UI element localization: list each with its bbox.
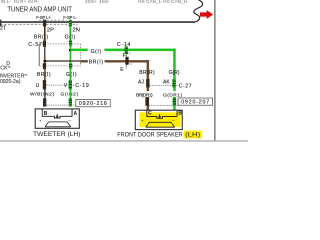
svg-text:0920-216: 0920-216: [79, 101, 107, 107]
speaker symbol bracket: [147, 117, 177, 119]
tweeter connector dotted line: [47, 104, 76, 106]
tweeter cone: [45, 122, 71, 127]
connector C-14 line: [125, 45, 127, 69]
bottom separator gray line: [0, 140, 248, 141]
wire green vertical from 2N to C-57: [69, 23, 71, 41]
junction dot brown: [44, 60, 47, 63]
wire brown vertical from 2P to C-57: [44, 23, 46, 41]
speaker symbol center arrow: [158, 114, 161, 119]
svg-text:BR(I): BR(I): [89, 60, 104, 66]
svg-text:2N: 2N: [73, 27, 80, 33]
connector C-19 dotted line: [46, 84, 74, 86]
callout box 0920-216: [76, 100, 110, 108]
unit connector dashed strip: [39, 19, 67, 21]
pin 2T (cut at left edge): [0, 20, 1, 27]
tweeter symbol center arrow: [56, 114, 59, 119]
svg-text:–: –: [172, 118, 175, 123]
svg-text:+: +: [39, 118, 42, 123]
C-57 top pin green: [69, 40, 72, 46]
svg-text:C-19: C-19: [75, 83, 89, 89]
C-57 top pin brown: [43, 41, 46, 47]
svg-text:B: B: [178, 110, 182, 116]
svg-text:G(R): G(R): [169, 70, 180, 76]
svg-text:*4: *4: [128, 52, 131, 56]
C-19 pin green: [69, 80, 72, 90]
pin 2P: [43, 20, 54, 34]
speaker connector pin brown: [145, 97, 148, 106]
unit box continuation squiggle: [194, 0, 203, 22]
wire brown vertical C-57 to C-19: [44, 69, 45, 80]
svg-text:G(DR1): G(DR1): [163, 92, 182, 98]
svg-text:C-27: C-27: [179, 83, 192, 89]
wire green vertical inside C-57: [70, 46, 72, 63]
C-27 pin brown: [146, 79, 149, 88]
svg-text:G(I): G(I): [65, 35, 76, 41]
connector C-57 dashed box: [39, 44, 80, 66]
svg-text:A: A: [74, 111, 78, 117]
svg-text:–: –: [69, 118, 72, 123]
red continuation arrow: [200, 10, 213, 19]
svg-text:C: C: [148, 110, 152, 116]
tweeter connector pin W/B: [43, 98, 46, 107]
junction dot green: [69, 49, 72, 52]
svg-text:4SS+: 4SS+: [85, 0, 97, 5]
wire brown vertical inside C-57: [44, 47, 45, 63]
svg-text:F: F: [123, 53, 126, 59]
svg-text:*4: *4: [129, 62, 132, 66]
connector C-57 left solid edge: [38, 44, 40, 66]
tweeter box: [35, 109, 79, 128]
page split vertical gray line: [214, 0, 216, 141]
brown branch wire inside box: [44, 60, 80, 61]
svg-text:U: U: [36, 83, 40, 89]
tuner and amp unit box bottom edge: [0, 21, 194, 23]
top cut pin labels: [1, 0, 188, 5]
wire green vertical C-57 to C-19: [70, 69, 72, 80]
svg-text:AJ: AJ: [138, 79, 144, 85]
svg-text:G(I): G(I): [91, 49, 102, 55]
yellow highlight inside speaker box: [140, 112, 181, 127]
C-57 bottom pin brown: [43, 63, 46, 69]
wire green vertical C-19 to tweeter connector: [70, 90, 72, 99]
svg-text:FRONT DOOR SPEAKER (LH): FRONT DOOR SPEAKER (LH): [117, 132, 200, 139]
svg-text:0920-2a): 0920-2a): [0, 79, 21, 85]
front door speaker box: [135, 110, 182, 129]
wire green horizontal to C-14: [70, 49, 176, 52]
wire label G(DR1): [163, 91, 183, 98]
svg-text:G(I): G(I): [66, 72, 77, 78]
wire green vertical right: [173, 49, 176, 111]
speaker cone: [146, 122, 175, 127]
svg-text:AK: AK: [163, 79, 170, 85]
pin 2N: [69, 20, 80, 34]
svg-text:2P: 2P: [47, 27, 54, 33]
svg-text:F-SP L-: F-SP L-: [63, 15, 77, 20]
C-19 pin brown: [43, 80, 46, 90]
speaker terminal stub B: [176, 110, 179, 116]
svg-text:BR(I): BR(I): [34, 35, 48, 41]
svg-text:4SS-: 4SS-: [99, 0, 110, 5]
C-27 pin green: [172, 79, 175, 88]
svg-text:TUNER AND AMP UNIT: TUNER AND AMP UNIT: [7, 5, 72, 14]
svg-text:W/B(IN2): W/B(IN2): [30, 91, 54, 97]
svg-text:BR(DR1): BR(DR1): [136, 92, 153, 98]
wire label G(I) on horizontal: [88, 47, 105, 55]
connector C-27 dotted line: [150, 85, 178, 87]
front door speaker caption: [117, 131, 202, 139]
wire label BR(DR1): [136, 91, 154, 98]
wire brown horizontal to C-14: [80, 60, 149, 62]
speaker connector pin green: [173, 97, 176, 106]
tweeter symbol bracket: [42, 116, 72, 118]
svg-text:C-57: C-57: [28, 42, 42, 48]
svg-text:2T: 2T: [0, 25, 7, 31]
svg-text:BR(I): BR(I): [37, 72, 51, 78]
tweeter terminal stub A: [71, 109, 74, 117]
C-57 bottom pin green: [69, 63, 72, 69]
svg-text:0920-207: 0920-207: [181, 100, 209, 106]
tweeter connector pin green: [69, 98, 72, 107]
svg-text:HS CAN_L: HS CAN_L: [138, 0, 162, 5]
C-14 pin F green: [123, 46, 131, 59]
speaker connector dotted line: [149, 105, 179, 107]
svg-text:G(IN2): G(IN2): [61, 91, 79, 97]
svg-text:TWEETER (LH): TWEETER (LH): [33, 131, 81, 138]
wire label BR(I) on horizontal: [88, 58, 105, 66]
svg-text:C-14: C-14: [117, 42, 131, 48]
speaker terminal stub C: [145, 110, 148, 116]
svg-text:F-SP L+: F-SP L+: [36, 15, 51, 20]
wire W/B vertical C-19 to tweeter connector: [44, 90, 45, 99]
svg-text:+: +: [141, 119, 144, 124]
svg-text:HS CAN_H: HS CAN_H: [163, 0, 188, 5]
tweeter terminal stub B: [41, 109, 44, 117]
C-14 pin E brown: [120, 57, 132, 73]
wire brown vertical right: [147, 60, 150, 111]
svg-text:BR(R): BR(R): [139, 70, 155, 76]
callout box 0920-207: [178, 98, 213, 106]
